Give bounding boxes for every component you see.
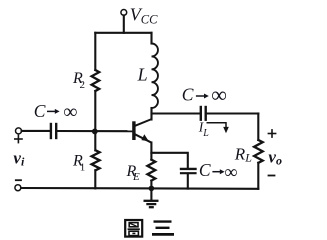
- input terminal top circle: [16, 128, 22, 134]
- wire ground stub: [150, 189, 152, 200]
- ground symbol bars: [144, 201, 159, 207]
- transistor Q1: [132, 119, 152, 143]
- transistor emitter arrowhead: [141, 134, 148, 141]
- wire R1 lower lead: [94, 170, 96, 188]
- wire bottom rail: [21, 187, 258, 190]
- wire RL lower lead: [257, 163, 259, 189]
- capacitor C output plates: [200, 107, 202, 120]
- transistor base bar: [132, 121, 135, 140]
- wire top rail: [95, 32, 151, 34]
- label minus input: [15, 179, 22, 181]
- resistor RE: [147, 160, 155, 181]
- inductor L top lead: [150, 33, 152, 44]
- svg-text:∞: ∞: [224, 163, 237, 183]
- resistor RL: [254, 140, 263, 163]
- wire output line right: [207, 112, 259, 114]
- svg-text:∞: ∞: [63, 101, 77, 123]
- svg-text:∞: ∞: [211, 82, 227, 107]
- wire emitter bypass takeoff: [151, 153, 187, 169]
- wire R2 upper lead: [94, 33, 96, 70]
- wire input to capacitor: [22, 130, 50, 132]
- label plus input: [14, 135, 23, 144]
- capacitor C input plates: [50, 124, 52, 138]
- node base junction dot: [92, 129, 98, 135]
- wire RL upper lead: [257, 114, 259, 141]
- transistor collector diagonal: [135, 119, 152, 126]
- input terminal bottom circle: [15, 185, 21, 191]
- capacitor C bypass plates: [181, 168, 196, 170]
- caption Chinese char TU (figure): [125, 220, 142, 237]
- wire capacitor to base: [57, 130, 132, 132]
- wire collector vertical: [150, 108, 152, 120]
- caption Chinese char SAN (three): [152, 222, 174, 235]
- arrow IL current direction: [207, 123, 227, 128]
- label minus output: [268, 175, 276, 177]
- svg-text:C: C: [34, 101, 46, 121]
- node emitter-ground junction dot: [149, 186, 155, 192]
- wire emitter vertical: [150, 143, 152, 160]
- svg-text:L: L: [137, 65, 148, 85]
- svg-text:C: C: [182, 85, 194, 105]
- label plus output: [268, 129, 277, 138]
- resistor R2: [92, 70, 100, 91]
- wire RE lower lead: [150, 181, 152, 189]
- wire VCC stub: [123, 15, 125, 32]
- VCC terminal circle: [121, 10, 127, 16]
- svg-text:C: C: [199, 160, 211, 180]
- resistor R1: [92, 150, 100, 170]
- wire bypass cap to rail: [187, 174, 189, 189]
- wire R2 to base node: [94, 91, 96, 150]
- inductor L coil: [152, 44, 158, 109]
- transistor emitter diagonal: [135, 134, 152, 142]
- wire output line left: [152, 112, 201, 114]
